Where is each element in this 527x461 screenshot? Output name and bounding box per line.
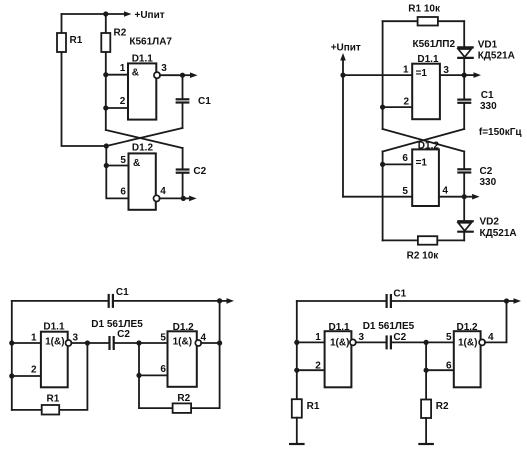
svg-text:КД521А: КД521А xyxy=(478,50,515,61)
svg-text:К561ЛА7: К561ЛА7 xyxy=(129,36,172,47)
svg-text:VD1: VD1 xyxy=(478,40,498,51)
svg-text:R2: R2 xyxy=(114,28,127,39)
svg-text:330: 330 xyxy=(480,101,497,112)
svg-text:R2: R2 xyxy=(177,393,190,404)
svg-text:1: 1 xyxy=(31,332,37,343)
svg-text:6: 6 xyxy=(160,364,166,375)
svg-text:C2: C2 xyxy=(393,332,406,343)
svg-text:C2: C2 xyxy=(480,166,493,177)
svg-text:1(&): 1(&) xyxy=(458,338,477,349)
svg-text:D1.2: D1.2 xyxy=(132,143,154,154)
svg-text:=1: =1 xyxy=(416,157,428,168)
svg-text:VD2: VD2 xyxy=(480,217,500,228)
svg-text:2: 2 xyxy=(315,361,321,372)
svg-text:4: 4 xyxy=(160,186,166,197)
svg-text:6: 6 xyxy=(120,187,126,198)
svg-text:R2 10к: R2 10к xyxy=(407,250,440,261)
svg-text:3: 3 xyxy=(359,332,365,343)
svg-text:D1.1: D1.1 xyxy=(43,322,65,333)
svg-text:1(&): 1(&) xyxy=(330,338,349,349)
svg-text:5: 5 xyxy=(446,332,452,343)
svg-text:330: 330 xyxy=(480,177,497,188)
svg-text:D1.1: D1.1 xyxy=(329,322,351,333)
svg-text:2: 2 xyxy=(31,364,37,375)
svg-text:&: & xyxy=(132,67,139,78)
svg-text:C1: C1 xyxy=(393,289,406,300)
svg-text:1: 1 xyxy=(315,332,321,343)
svg-text:+Uпит: +Uпит xyxy=(331,43,361,54)
svg-text:C1: C1 xyxy=(198,96,211,107)
svg-text:f=150кГц: f=150кГц xyxy=(479,127,523,138)
svg-text:R1 10к: R1 10к xyxy=(408,4,441,15)
svg-text:+Uпит: +Uпит xyxy=(135,10,165,21)
svg-text:D1.1: D1.1 xyxy=(417,54,439,65)
svg-text:1: 1 xyxy=(403,64,409,75)
svg-text:3: 3 xyxy=(73,332,79,343)
svg-text:C2: C2 xyxy=(193,166,206,177)
svg-text:1(&): 1(&) xyxy=(45,336,64,347)
svg-text:1: 1 xyxy=(120,63,126,74)
svg-text:C1: C1 xyxy=(116,287,129,298)
svg-text:R2: R2 xyxy=(436,401,449,412)
svg-text:2: 2 xyxy=(120,96,126,107)
svg-text:5: 5 xyxy=(402,186,408,197)
svg-text:D1.2: D1.2 xyxy=(457,322,479,333)
svg-text:4: 4 xyxy=(488,332,494,343)
svg-text:C1: C1 xyxy=(481,90,494,101)
svg-text:6: 6 xyxy=(446,361,452,372)
svg-text:D1.2: D1.2 xyxy=(173,322,195,333)
svg-text:D1 561ЛЕ5: D1 561ЛЕ5 xyxy=(363,321,415,332)
svg-text:R1: R1 xyxy=(47,394,60,405)
svg-text:3: 3 xyxy=(161,63,167,74)
svg-text:5: 5 xyxy=(160,332,166,343)
svg-text:6: 6 xyxy=(402,153,408,164)
svg-text:2: 2 xyxy=(404,96,410,107)
svg-text:5: 5 xyxy=(120,155,126,166)
svg-text:3: 3 xyxy=(443,65,449,76)
svg-text:&: & xyxy=(133,158,140,169)
svg-text:=1: =1 xyxy=(416,68,428,79)
svg-text:К561ЛП2: К561ЛП2 xyxy=(413,39,456,50)
svg-text:R1: R1 xyxy=(307,401,320,412)
svg-text:1(&): 1(&) xyxy=(173,336,192,347)
svg-text:D1.2: D1.2 xyxy=(418,140,440,151)
svg-text:4: 4 xyxy=(442,185,448,196)
svg-text:C2: C2 xyxy=(117,329,130,340)
svg-text:КД521А: КД521А xyxy=(480,228,517,239)
svg-text:R1: R1 xyxy=(70,35,83,46)
svg-text:D1.1: D1.1 xyxy=(132,54,154,65)
